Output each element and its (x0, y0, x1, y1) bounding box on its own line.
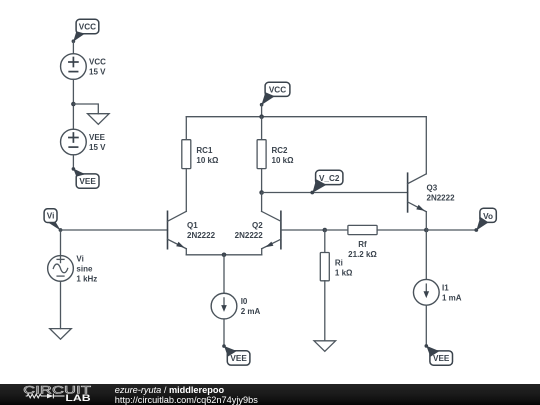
svg-text:RC1: RC1 (196, 146, 213, 155)
wire (185, 169, 187, 212)
svg-text:VEE: VEE (433, 354, 450, 363)
net flag VCC (rail) (260, 82, 290, 106)
wire (72, 79, 74, 129)
wire (61, 229, 168, 231)
wire (324, 230, 326, 253)
wire (Q3 collector) (425, 117, 427, 174)
svg-text:Q3: Q3 (427, 184, 438, 193)
ground (88, 114, 110, 125)
net flag Vi (44, 209, 62, 232)
transistor Q1 2N2222 (168, 211, 216, 248)
wire (185, 117, 187, 140)
voltage source VEE 15 V (61, 129, 107, 155)
wire (73, 104, 98, 114)
wire (top rail) (186, 116, 426, 118)
wire (377, 229, 426, 231)
svg-text:Rf: Rf (358, 240, 367, 249)
net flag Vo (474, 208, 496, 232)
ground (314, 341, 336, 352)
svg-text:Vo: Vo (483, 212, 493, 221)
svg-text:15 V: 15 V (89, 67, 106, 76)
node (supply midpoint) (71, 102, 76, 107)
node (259, 114, 264, 119)
CircuitLab logo (0, 384, 115, 405)
svg-text:I1: I1 (442, 283, 449, 292)
svg-text:2N2222: 2N2222 (235, 231, 264, 240)
svg-text:1 mA: 1 mA (442, 293, 462, 302)
svg-text:Q2: Q2 (252, 221, 263, 230)
wire (223, 319, 225, 346)
svg-text:Vi: Vi (76, 255, 83, 264)
voltage source Vi sine 1 kHz (48, 255, 98, 284)
svg-text:Vi: Vi (47, 212, 55, 221)
wire (261, 169, 263, 193)
net flag VCC (left supply) (72, 19, 99, 43)
transistor Q2 2N2222 (mirrored) (235, 211, 281, 248)
wire (261, 117, 263, 140)
svg-text:1 kHz: 1 kHz (76, 274, 97, 283)
wire (324, 281, 326, 341)
svg-text:VCC: VCC (79, 22, 96, 31)
svg-text:V_C2: V_C2 (319, 174, 340, 183)
wire (net V_C2) (262, 192, 408, 194)
node (323, 228, 328, 233)
net flag VEE (left supply) (72, 167, 99, 188)
svg-text:LAB: LAB (65, 393, 90, 403)
svg-text:1 kΩ: 1 kΩ (335, 269, 353, 278)
svg-text:2 mA: 2 mA (241, 307, 261, 316)
resistor Rf 21.2 kΩ (348, 225, 378, 258)
transistor Q3 2N2222 (408, 173, 455, 212)
wire (426, 229, 476, 231)
svg-text:Ri: Ri (335, 259, 343, 268)
wire (425, 212, 427, 230)
wire (261, 193, 263, 212)
svg-text:VEE: VEE (89, 133, 106, 142)
voltage source VCC 15 V (61, 54, 107, 80)
ground (50, 329, 72, 340)
wire (261, 249, 263, 255)
net flag VEE (under I0) (222, 344, 250, 365)
wire (72, 41, 74, 53)
wire (425, 230, 427, 279)
current source I0 2 mA (211, 293, 260, 319)
wire (Q2 base) (281, 229, 325, 231)
svg-text:2N2222: 2N2222 (187, 231, 216, 240)
wire (72, 155, 74, 169)
resistor RC2 (257, 140, 294, 169)
svg-text:10 kΩ: 10 kΩ (272, 156, 295, 165)
wire (223, 255, 225, 293)
net flag VEE (under I1) (425, 344, 453, 365)
wire (60, 281, 62, 328)
net flag V_C2 (310, 170, 343, 194)
svg-text:2N2222: 2N2222 (427, 194, 456, 203)
svg-text:sine: sine (76, 265, 93, 274)
svg-text:Q1: Q1 (187, 221, 198, 230)
node (424, 228, 429, 233)
footer bar (0, 384, 540, 405)
svg-text:15 V: 15 V (89, 143, 106, 152)
svg-text:VCC: VCC (269, 86, 286, 95)
svg-text:VEE: VEE (230, 354, 247, 363)
node (259, 190, 264, 195)
wire (425, 305, 427, 346)
svg-text:I0: I0 (241, 297, 248, 306)
wire (60, 230, 62, 256)
svg-text:10 kΩ: 10 kΩ (196, 156, 219, 165)
node (222, 253, 227, 258)
wire (185, 249, 187, 255)
svg-text:RC2: RC2 (272, 146, 289, 155)
wire (325, 229, 348, 231)
svg-text:VCC: VCC (89, 58, 106, 67)
wire (emitter bus) (186, 254, 261, 256)
svg-text:VEE: VEE (79, 177, 96, 186)
svg-text:21.2 kΩ: 21.2 kΩ (348, 250, 377, 259)
resistor Ri 1 kΩ (320, 253, 353, 281)
current source I1 1 mA (413, 279, 461, 305)
wire (261, 105, 263, 117)
resistor RC1 (182, 140, 219, 169)
